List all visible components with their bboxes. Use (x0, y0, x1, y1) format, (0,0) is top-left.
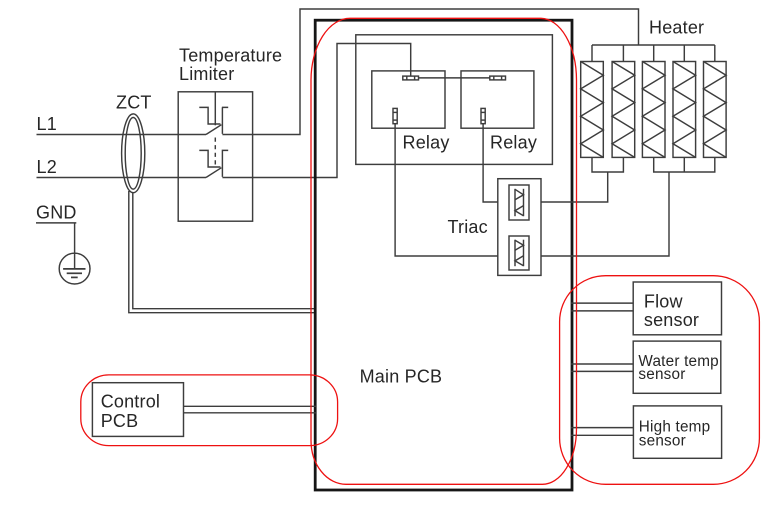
wire relay K2 to triac T1 (483, 124, 498, 202)
svg-text:GND: GND (36, 203, 77, 223)
limiter terminal stem (214, 92, 216, 126)
High temp sensor label (639, 418, 711, 449)
svg-text:sensor: sensor (644, 310, 699, 330)
high temp sensor box (633, 406, 721, 458)
svg-text:Limiter: Limiter (179, 64, 234, 84)
Temperature Limiter label (179, 46, 282, 84)
main PCB board outline (315, 20, 572, 490)
relay K2 contact terminal (481, 108, 485, 123)
heater top bus and stubs (592, 45, 715, 62)
svg-text:sensor: sensor (638, 366, 685, 383)
control PCB box (92, 383, 183, 437)
water temp sensor box (633, 341, 721, 393)
red highlight loop main PCB (311, 18, 577, 484)
wire high temp sensor pair (571, 428, 633, 436)
svg-text:Control: Control (101, 392, 160, 412)
relay K2 coil terminal (490, 76, 506, 80)
wire ZCT secondary pair to main PCB (129, 191, 316, 313)
triac T1 (509, 185, 529, 220)
wire L2 input (37, 177, 207, 179)
wire water temp sensor pair (571, 364, 633, 371)
wire triac T2 to heater bridge E3E4 (541, 172, 669, 256)
wire GND (74, 223, 76, 254)
GND underline (36, 222, 76, 224)
red highlight loop control PCB (81, 375, 338, 446)
relay K1 coil terminal (403, 76, 419, 80)
svg-text:sensor: sensor (639, 432, 686, 449)
triac T2 (509, 236, 529, 270)
wire flow sensor pair (571, 303, 633, 311)
relay group box (356, 35, 553, 165)
ground earth symbol (59, 253, 90, 284)
wire L1 input (37, 134, 207, 136)
Water temp sensor label (638, 353, 719, 383)
svg-text:Triac: Triac (448, 217, 488, 237)
Control PCB label (101, 392, 160, 432)
heater element E3 (642, 62, 665, 158)
Flow sensor label (644, 291, 699, 330)
relay K2 box (461, 71, 534, 128)
svg-text:PCB: PCB (101, 411, 139, 431)
svg-text:L2: L2 (37, 157, 57, 177)
wire L1 to heater top bus (222, 9, 638, 135)
heater element E4 (673, 62, 696, 158)
flow sensor box (633, 282, 721, 335)
heater element E1 (581, 62, 604, 158)
svg-text:Flow: Flow (644, 291, 684, 311)
relay K1 box (372, 71, 445, 128)
svg-text:Heater: Heater (649, 18, 704, 38)
limiter switch pole 1 (199, 107, 228, 134)
red highlight loop sensors (560, 276, 760, 485)
svg-text:Main PCB: Main PCB (360, 366, 443, 386)
relay K1 contact terminal (393, 108, 397, 123)
heater bottom bridge E3-E4-E5 (654, 157, 715, 172)
svg-text:Relay: Relay (403, 132, 450, 152)
wire relay K1 to triac T2 (395, 124, 498, 256)
limiter switch pole 2 (199, 150, 228, 177)
triac module box (498, 179, 541, 276)
svg-text:Temperature: Temperature (179, 46, 282, 66)
wire relay coil link (419, 77, 490, 79)
wire L2 to relay K1 coil (222, 44, 410, 178)
heater element E5 (704, 62, 727, 158)
svg-text:Relay: Relay (490, 132, 537, 152)
limiter mechanical link (214, 138, 216, 167)
temperature limiter box (178, 92, 252, 221)
ZCT current transformer (122, 114, 145, 193)
wire control PCB pair (184, 406, 317, 413)
svg-text:L1: L1 (37, 114, 57, 134)
heater element E2 (612, 62, 635, 158)
svg-text:ZCT: ZCT (116, 93, 152, 113)
heater bottom bridge E1-E2 (592, 157, 623, 172)
wire triac T1 to heater bridge E1E2 (541, 172, 608, 202)
